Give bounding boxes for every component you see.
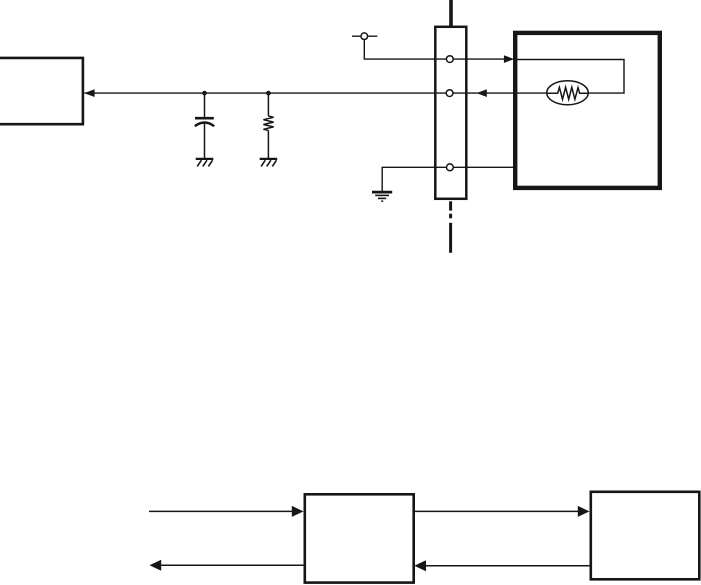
arrowhead into left box (84, 89, 94, 97)
pin 1 of connector (446, 56, 453, 63)
sensor box U1 (thick border) (515, 33, 660, 188)
thermistor RT1 ellipse (547, 81, 589, 105)
arrowhead toward connector pin 2 (477, 89, 487, 97)
wire net 3: ground to pin 3 to box (382, 167, 514, 191)
arrowhead into B1 right edge (414, 560, 426, 571)
ground (chassis) under R1 (260, 159, 278, 167)
arrowhead leftward (150, 560, 162, 571)
wire from box edge into thermistor (515, 92, 547, 94)
left box (cut at page edge) (0, 58, 83, 124)
terminal T1 line (352, 35, 377, 37)
pin 3 of connector (447, 164, 454, 171)
wire B1 to B2 (top) (414, 510, 580, 512)
wire from terminal to pin 1 (364, 36, 434, 59)
capacitor C1 (195, 93, 214, 158)
arrowhead into B2 (578, 506, 590, 517)
centerline dash-dot below connector (449, 201, 452, 253)
arrowhead into B1 (292, 506, 304, 517)
terminal T1 open circle (361, 33, 368, 40)
node junction at resistor (266, 91, 271, 96)
ground (chassis) under C1 (196, 159, 214, 167)
node junction at capacitor (202, 91, 207, 96)
wire into B1 (top left) (149, 510, 294, 512)
wire thick stub above connector (449, 0, 453, 26)
wire net 2: thermistor to left box (85, 92, 548, 94)
inner loop wire in sensor box (514, 60, 624, 94)
ground (earth) at connector (372, 192, 392, 201)
wire out of B1 (bottom left) (158, 564, 304, 566)
wire pin1 to box (net 1) (434, 58, 506, 60)
connector J1 body (435, 27, 466, 199)
pin 2 of connector (446, 90, 453, 97)
arrowhead into sensor box (504, 55, 514, 63)
thermistor RT1 zigzag element (547, 87, 588, 99)
wire B2 to B1 (bottom) (424, 565, 591, 567)
resistor R1 (263, 93, 273, 158)
block box B2 (right bottom) (591, 492, 700, 580)
block box B1 (middle bottom) (305, 494, 414, 582)
